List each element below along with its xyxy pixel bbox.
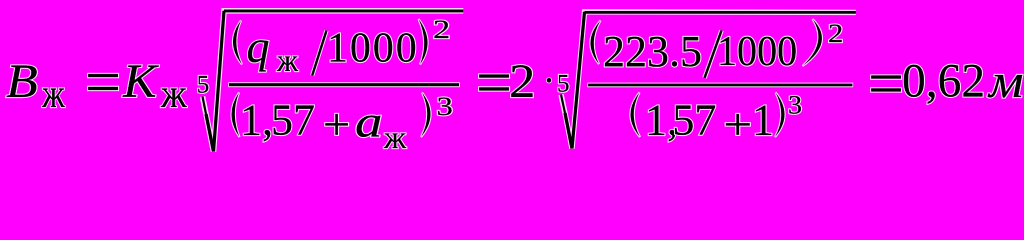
svg-text:5: 5 xyxy=(557,70,570,97)
svg-text:0,62: 0,62 xyxy=(902,56,985,108)
svg-text:К: К xyxy=(122,54,159,107)
svg-text:2: 2 xyxy=(509,55,535,108)
svg-text:57: 57 xyxy=(271,96,315,145)
svg-text:223.5: 223.5 xyxy=(603,27,702,76)
opening parenthesis of (223.5/1000)^2 xyxy=(590,21,600,65)
svg-text:+: + xyxy=(723,101,752,149)
fraction slash in numerator 2 xyxy=(705,31,722,79)
radical sign 1 halo xyxy=(203,11,464,152)
svg-text:ж: ж xyxy=(383,119,407,155)
radical sign 1 (5th root symbol) xyxy=(203,11,464,152)
svg-text:=: = xyxy=(476,47,512,118)
svg-text:1000: 1000 xyxy=(717,27,797,74)
fraction bar 2 xyxy=(587,83,853,88)
radical sign 2 (5th root symbol) xyxy=(561,12,856,149)
svg-text:В: В xyxy=(6,55,38,107)
svg-text:3: 3 xyxy=(788,90,802,119)
opening parenthesis of (q_zh/1000)^2 xyxy=(233,21,242,65)
svg-text:+: + xyxy=(323,101,350,150)
closing parenthesis of (223.5/1000)^2 xyxy=(803,19,822,66)
svg-text:=: = xyxy=(868,47,904,118)
svg-text:м: м xyxy=(987,56,1024,108)
svg-text:ж: ж xyxy=(160,73,187,117)
fraction bar 1 xyxy=(228,82,460,87)
multiplication dot xyxy=(546,77,552,83)
svg-text:1000: 1000 xyxy=(327,26,419,72)
fraction slash in numerator 1 xyxy=(312,31,326,76)
svg-text:2: 2 xyxy=(828,19,843,49)
svg-text:ж: ж xyxy=(41,71,65,116)
svg-text:3: 3 xyxy=(437,92,453,121)
closing parenthesis of (1,57+a_zh)^3 xyxy=(421,93,431,138)
svg-text:57: 57 xyxy=(672,96,716,145)
svg-text:1,: 1, xyxy=(240,96,273,145)
svg-text:q: q xyxy=(247,21,270,72)
svg-text:1: 1 xyxy=(752,96,774,145)
radical sign 2 halo xyxy=(561,12,856,149)
svg-text:2: 2 xyxy=(433,15,450,44)
svg-text:ж: ж xyxy=(276,42,298,78)
opening parenthesis of (1,57+a_zh)^3 xyxy=(232,93,240,138)
opening parenthesis of (1,57+1)^3 xyxy=(630,93,640,138)
svg-text:=: = xyxy=(85,46,121,117)
closing parenthesis of (1,57+1)^3 xyxy=(775,93,785,138)
svg-text:5: 5 xyxy=(197,71,210,98)
svg-text:a: a xyxy=(355,98,383,147)
closing parenthesis of (q_zh/1000)^2 xyxy=(419,19,428,65)
